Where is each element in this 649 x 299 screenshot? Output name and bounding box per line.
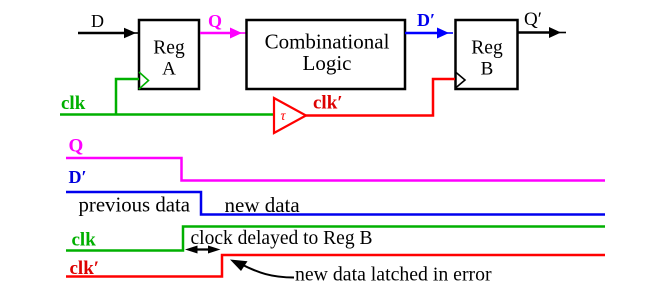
wire Q (magenta) (200, 28, 247, 39)
wire D input arrow (78, 28, 140, 39)
clock wedge on Reg B (456, 72, 466, 88)
register Reg A (139, 20, 199, 89)
svg-text:Reg: Reg (153, 38, 185, 59)
svg-text:clock delayed to Reg B: clock delayed to Reg B (191, 228, 373, 249)
svg-text:Reg: Reg (471, 38, 503, 59)
svg-text:clk: clk (61, 93, 86, 114)
svg-text:Combinational: Combinational (265, 30, 390, 54)
clock wedge on Reg A (139, 72, 149, 89)
svg-text:Q′: Q′ (524, 9, 542, 30)
waveform Q (magenta) (66, 158, 605, 181)
svg-text:B: B (481, 59, 494, 80)
svg-text:new data latched in error: new data latched in error (295, 264, 492, 286)
wire clk' (red) (306, 79, 455, 116)
svg-text:Q: Q (208, 11, 222, 31)
wire Q' output arrow (518, 27, 566, 38)
svg-text:previous data: previous data (79, 194, 190, 217)
svg-text:D′: D′ (69, 167, 87, 187)
svg-text:Logic: Logic (303, 51, 352, 75)
svg-text:new data: new data (225, 193, 301, 217)
svg-text:clk′: clk′ (70, 258, 100, 279)
svg-text:clk′: clk′ (313, 93, 343, 114)
wire D' (blue) (405, 28, 453, 39)
combinational logic block (247, 20, 406, 89)
svg-text:clk: clk (72, 230, 97, 251)
svg-text:A: A (162, 59, 176, 80)
delay buffer tau (274, 98, 306, 133)
register Reg B (456, 20, 518, 89)
svg-text:Q: Q (69, 136, 84, 157)
waveform clk (green) (66, 227, 605, 251)
svg-text:D: D (91, 11, 104, 31)
annotation arrow (new data latched in error) (230, 260, 294, 278)
svg-text:D′: D′ (417, 10, 435, 30)
waveform clk' (red) (66, 255, 605, 277)
delay measure double arrow (185, 246, 221, 254)
wire clk (green) (60, 79, 274, 115)
waveform D' (blue) (66, 192, 605, 215)
